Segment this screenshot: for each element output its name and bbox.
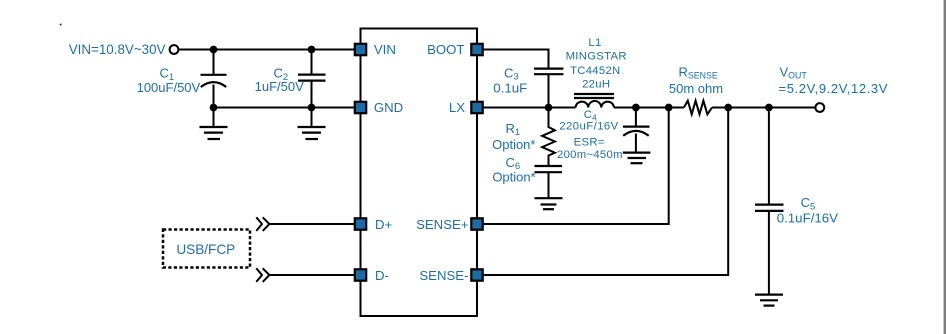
wire LX rail right [712, 107, 815, 109]
node C1 bottom [210, 104, 218, 112]
pin SENSE- [471, 269, 482, 280]
svg-text:0.1uF: 0.1uF [493, 80, 527, 95]
svg-text:MINGSTAR: MINGSTAR [566, 51, 627, 63]
svg-text:ESR=: ESR= [574, 137, 605, 149]
node C2 bottom [308, 104, 316, 112]
pin LX [471, 102, 482, 113]
ground below C6 [535, 198, 563, 209]
box USB/FCP [163, 230, 250, 268]
svg-text:Option*: Option* [492, 170, 535, 185]
wire SENSE- net [483, 108, 729, 276]
svg-text:200m~450m: 200m~450m [557, 149, 623, 161]
svg-text:D+: D+ [375, 217, 393, 232]
terminal VOUT [815, 103, 824, 112]
pin BOOT [471, 44, 482, 55]
svg-text:LX: LX [449, 100, 465, 115]
wire SENSE+ net [483, 108, 669, 225]
IC U1 body [361, 29, 478, 317]
wire D+ [269, 223, 354, 225]
wire VIN input to pin [179, 49, 355, 51]
node SENSE- tap [724, 104, 732, 112]
capacitor C3 [534, 69, 563, 108]
wire D- [269, 274, 354, 276]
capacitor C1 [201, 50, 227, 108]
chevrons D+ [256, 217, 269, 231]
ground below C5 [755, 295, 783, 306]
svg-text:=5.2V,9.2V,12.3V: =5.2V,9.2V,12.3V [779, 81, 889, 96]
node SENSE+ tap [665, 104, 673, 112]
capacitor C2 [298, 50, 326, 108]
pin D+ [355, 218, 366, 229]
chevrons D- [256, 268, 269, 282]
resistor RSENSE [684, 101, 712, 115]
svg-text:SENSE-: SENSE- [419, 268, 468, 283]
capacitor C4 [623, 108, 650, 152]
terminal VIN input [170, 45, 179, 54]
svg-text:Option*: Option* [492, 137, 535, 152]
wire LX rail left [483, 107, 576, 109]
node C1 top [210, 46, 218, 54]
node C4 [632, 104, 640, 112]
svg-text:TC4452N: TC4452N [570, 65, 620, 77]
stray dot [60, 24, 62, 26]
svg-text:USB/FCP: USB/FCP [176, 242, 235, 257]
inductor L1 core bars [574, 94, 614, 98]
svg-text:22uH: 22uH [582, 78, 610, 90]
svg-text:VIN: VIN [374, 42, 396, 57]
node C2 top [308, 46, 316, 54]
svg-text:220uF/16V: 220uF/16V [559, 121, 618, 133]
svg-text:1uF/50V: 1uF/50V [255, 79, 304, 94]
svg-text:L1: L1 [588, 37, 601, 49]
pin GND [355, 102, 366, 113]
wire GND rail [214, 107, 355, 109]
svg-text:0.1uF/16V: 0.1uF/16V [777, 211, 838, 226]
inductor L1 coil [576, 101, 615, 107]
pin D- [355, 269, 366, 280]
right border gray bar [943, 0, 944, 334]
capacitor C6 [535, 166, 563, 198]
ground below C2 [298, 108, 326, 140]
capacitor C5 [755, 108, 784, 295]
svg-text:100uF/50V: 100uF/50V [137, 80, 201, 95]
ground below C4 [623, 153, 651, 164]
ground below C1 [200, 108, 228, 140]
node C5 [765, 104, 773, 112]
svg-text:VIN=10.8V~30V: VIN=10.8V~30V [69, 42, 166, 57]
svg-text:SENSE+: SENSE+ [416, 217, 469, 232]
svg-text:50m ohm: 50m ohm [669, 81, 723, 96]
node LX / C3 / R1 [545, 104, 553, 112]
svg-text:D-: D- [375, 268, 389, 283]
svg-text:BOOT: BOOT [427, 42, 464, 57]
wire LX rail middle [614, 107, 684, 109]
resistor R1 [542, 108, 555, 166]
svg-text:GND: GND [374, 100, 403, 115]
wire BOOT net [483, 50, 549, 68]
pin VIN [355, 44, 366, 55]
pin SENSE+ [471, 218, 482, 229]
